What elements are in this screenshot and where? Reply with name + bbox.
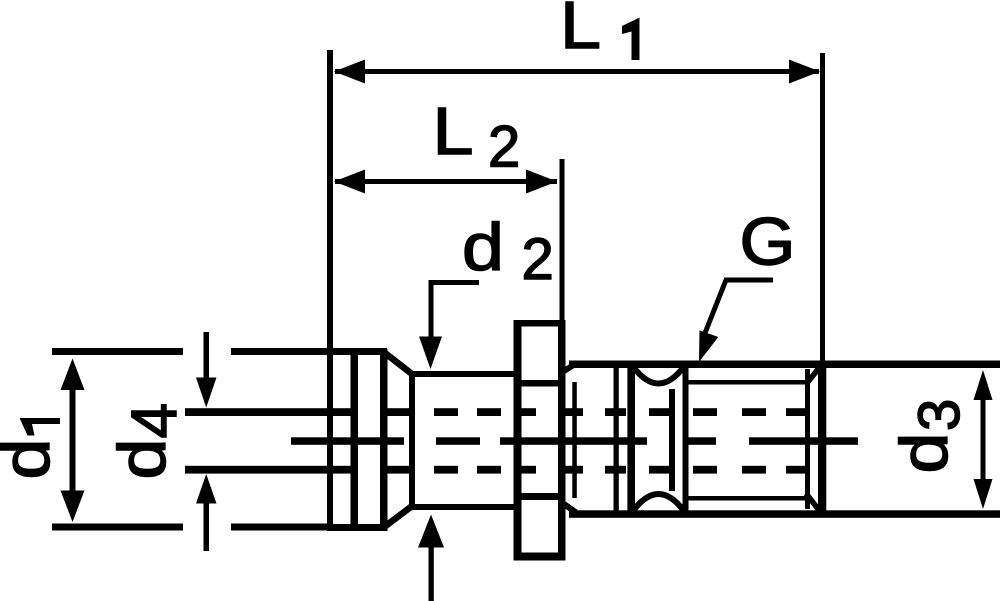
svg-text:L: L	[433, 94, 474, 169]
svg-text:d: d	[0, 439, 64, 480]
svg-text:4: 4	[118, 403, 190, 439]
svg-text:2: 2	[522, 227, 554, 292]
svg-text:d: d	[887, 433, 962, 474]
svg-text:2: 2	[488, 115, 520, 180]
svg-text:d: d	[105, 439, 180, 480]
svg-text:3: 3	[907, 399, 972, 431]
svg-text:G: G	[740, 205, 796, 280]
svg-text:d: d	[462, 210, 504, 285]
svg-text:L: L	[560, 0, 601, 63]
